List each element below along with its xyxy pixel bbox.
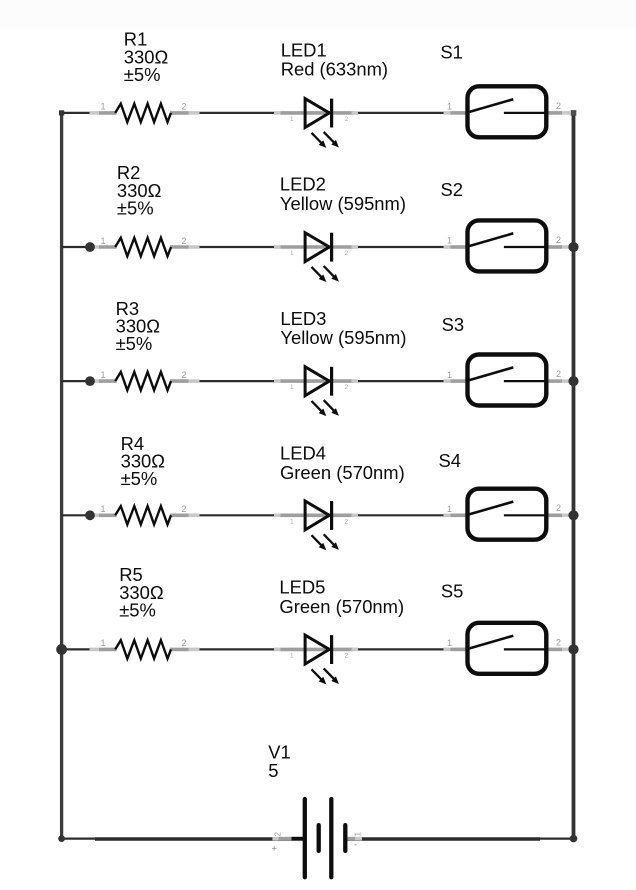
svg-text:LED5: LED5 — [279, 577, 325, 598]
LED3 cathode bar — [330, 367, 333, 396]
S1 pin 2 lead — [549, 111, 563, 115]
wire: bottom left corner stub — [62, 837, 97, 839]
svg-text:Red (633nm): Red (633nm) — [281, 59, 388, 80]
svg-text:1: 1 — [101, 102, 106, 112]
svg-text:Yellow (595nm): Yellow (595nm) — [280, 327, 406, 348]
R4 pin 1 lead — [90, 513, 100, 517]
svg-text:1: 1 — [290, 250, 294, 257]
svg-text:Green (570nm): Green (570nm) — [279, 596, 404, 617]
R3 zigzag body — [115, 372, 171, 390]
junction: bottom left corner — [58, 835, 65, 842]
svg-text:±5%: ±5% — [124, 64, 161, 85]
LED LED2 — [274, 233, 358, 282]
S5 pin 1 lead — [444, 648, 451, 652]
svg-text:1: 1 — [101, 236, 106, 246]
LED3 pin 1 lead — [274, 379, 281, 383]
svg-text:1: 1 — [447, 638, 452, 648]
LED5 pin 2 lead — [306, 648, 354, 652]
S2 lever — [466, 233, 513, 247]
S1 lever — [466, 99, 513, 113]
S2 pin 2 lead — [549, 245, 563, 249]
R5 pin 1 lead — [90, 648, 100, 652]
S5 pin 2 lead — [549, 648, 563, 652]
wire: battery negative lead to right bus — [345, 837, 540, 840]
S5 body outline — [468, 623, 547, 674]
wire: right vertical bus — [572, 113, 576, 839]
LED4 anode triangle — [305, 501, 329, 530]
junction: row 2 right bus dot — [568, 242, 578, 252]
svg-text:S3: S3 — [442, 314, 465, 335]
resistor R4 — [90, 504, 200, 524]
V1 pin 2 lead (positive) — [272, 837, 278, 841]
junction: row 5 left bus dot — [56, 644, 67, 655]
wire: left vertical bus — [60, 113, 63, 839]
LED5 light arrow 2 — [324, 668, 335, 680]
LED4 pin 2 lead — [306, 513, 354, 517]
S1 pin 1 lead — [444, 111, 451, 115]
resistor R5 — [90, 638, 200, 658]
svg-text:1: 1 — [290, 384, 294, 391]
V1 plate tall 2 — [329, 799, 333, 877]
V1 plate positive tall 1 — [303, 799, 307, 877]
S4 pin 2 lead — [549, 513, 563, 517]
label R4 value — [121, 433, 165, 489]
R1 pin 1 lead — [90, 111, 100, 115]
label R1 value — [124, 29, 168, 85]
R3 pin 2 lead — [170, 379, 189, 383]
LED2 cathode bar — [330, 233, 333, 262]
wire: branch 2 bus to resistor — [62, 246, 92, 248]
R2 pin 1 lead — [90, 245, 100, 249]
switch S4 — [444, 489, 571, 540]
svg-text:±5%: ±5% — [121, 468, 158, 489]
svg-text:S5: S5 — [441, 581, 464, 602]
LED3 pin 2 lead — [306, 379, 354, 383]
label LED4 — [280, 443, 405, 483]
label LED5 — [279, 577, 404, 617]
S4 contact — [504, 514, 548, 516]
label R2 value — [117, 162, 161, 218]
LED LED5 — [274, 635, 358, 684]
battery V1 — [272, 799, 363, 877]
label R5 value — [119, 564, 163, 620]
junction: row 1 left corner — [59, 110, 64, 115]
LED4 pin 1 lead — [274, 513, 281, 517]
junction: row 3 right bus dot — [568, 376, 578, 386]
label R3 value — [116, 298, 160, 354]
LED3 light arrow 1 — [312, 401, 323, 412]
svg-text:2: 2 — [345, 250, 349, 257]
S2 pin 1 lead — [444, 245, 451, 249]
wire: branch 5 LED to switch — [357, 648, 446, 650]
svg-text:1: 1 — [101, 370, 106, 380]
wire: branch 5 resistor to LED — [198, 648, 281, 650]
svg-text:LED4: LED4 — [280, 443, 326, 464]
S5 contact — [504, 648, 548, 650]
svg-text:2: 2 — [182, 236, 187, 246]
LED5 light arrow 1 — [312, 669, 323, 680]
V1 plate short 2 (negative) — [343, 825, 347, 851]
LED5 anode triangle — [305, 635, 329, 664]
wire: bottom right corner stub — [538, 837, 574, 839]
wire: branch 1 resistor to LED — [198, 112, 281, 114]
LED1 light arrow 1 — [312, 133, 323, 144]
junction: row 4 right bus dot — [568, 510, 578, 520]
R1 zigzag body — [115, 104, 171, 122]
R3 pin 1 lead — [90, 379, 100, 383]
wire: branch 2 LED to switch — [357, 246, 446, 248]
label LED3 — [280, 308, 406, 348]
svg-text:1: 1 — [447, 102, 452, 112]
LED1 pin 1 lead — [274, 111, 281, 115]
LED1 light arrow 2 — [324, 132, 335, 144]
svg-text:±5%: ±5% — [117, 197, 154, 218]
svg-text:S4: S4 — [439, 450, 462, 471]
switch S1 — [444, 86, 571, 137]
S3 contact — [504, 380, 548, 382]
svg-text:2: 2 — [182, 102, 187, 112]
wire: branch 4 LED to switch — [357, 514, 446, 516]
junction: row 5 right bus dot — [568, 644, 578, 654]
LED4 light arrow 2 — [324, 534, 335, 546]
LED1 anode triangle — [305, 99, 329, 128]
svg-text:2: 2 — [556, 235, 561, 245]
S2 contact — [504, 246, 548, 248]
wire: branch 3 LED to switch — [357, 380, 446, 382]
LED4 light arrow 1 — [312, 535, 323, 546]
svg-text:1: 1 — [447, 370, 452, 380]
svg-text:S1: S1 — [440, 41, 463, 62]
wire: branch 3 resistor to LED — [198, 380, 281, 382]
svg-text:2: 2 — [182, 638, 187, 648]
label V1 value — [268, 742, 291, 782]
wire: branch 3 bus to resistor — [62, 380, 92, 382]
svg-text:±5%: ±5% — [119, 600, 156, 621]
svg-text:LED3: LED3 — [280, 308, 326, 329]
S4 pin 1 lead — [444, 513, 451, 517]
svg-text:+: + — [272, 844, 277, 854]
wire: branch 2 resistor to LED — [198, 246, 281, 248]
S3 body outline — [468, 355, 547, 406]
label LED2 — [280, 174, 406, 214]
R1 pin 2 lead — [170, 111, 189, 115]
svg-text:1: 1 — [290, 652, 294, 659]
svg-text:5: 5 — [268, 760, 278, 781]
switch S5 — [444, 623, 571, 674]
junction: row 3 left dot — [85, 376, 95, 386]
S5 lever — [466, 636, 513, 650]
LED1 pin 2 lead — [306, 111, 354, 115]
LED5 cathode bar — [330, 635, 333, 664]
wire: branch 4 bus to resistor — [62, 514, 92, 516]
R2 zigzag body — [115, 238, 171, 256]
svg-text:2: 2 — [182, 504, 187, 514]
svg-text:2: 2 — [274, 832, 283, 837]
svg-text:2: 2 — [556, 637, 561, 647]
V1 plate short 1 — [317, 825, 321, 851]
svg-text:LED1: LED1 — [281, 39, 327, 60]
svg-text:2: 2 — [556, 503, 561, 513]
svg-text:2: 2 — [182, 370, 187, 380]
resistor R3 — [90, 370, 200, 390]
svg-text:1: 1 — [290, 116, 294, 123]
LED LED1 — [274, 99, 358, 148]
R2 pin 2 lead — [170, 245, 189, 249]
wire: branch 1 LED to switch — [357, 112, 446, 114]
svg-text:2: 2 — [556, 369, 561, 379]
V1 positive stub — [292, 837, 304, 841]
junction: row 2 left dot — [85, 242, 95, 252]
S4 body outline — [468, 489, 547, 540]
svg-text:LED2: LED2 — [280, 174, 326, 195]
LED4 cathode bar — [330, 501, 333, 530]
svg-text:1: 1 — [354, 832, 363, 837]
svg-text:2: 2 — [345, 384, 349, 391]
LED LED4 — [274, 501, 358, 550]
S3 pin 2 lead — [549, 379, 563, 383]
svg-text:1: 1 — [101, 504, 106, 514]
LED2 pin 1 lead — [274, 245, 281, 249]
R4 pin 2 lead — [170, 513, 189, 517]
svg-text:2: 2 — [345, 116, 349, 123]
LED LED3 — [274, 367, 358, 416]
LED3 light arrow 2 — [324, 400, 335, 412]
svg-text:1: 1 — [290, 518, 294, 525]
LED5 pin 1 lead — [274, 648, 281, 652]
S3 lever — [466, 367, 513, 381]
junction: row 4 left dot — [85, 510, 95, 520]
S3 pin 1 lead — [444, 379, 451, 383]
resistor R2 — [90, 236, 200, 256]
resistor R1 — [90, 102, 200, 122]
label LED1 — [281, 39, 388, 79]
V1 pin 1 lead (negative) — [344, 837, 355, 841]
R5 pin 2 lead — [170, 648, 189, 652]
junction: row 1 right corner — [571, 110, 577, 116]
R5 zigzag body — [115, 640, 171, 658]
wire: battery positive lead to left bus — [95, 837, 304, 840]
wire: branch 5 bus to resistor — [62, 648, 92, 650]
svg-text:1: 1 — [447, 236, 452, 246]
wire: branch 4 resistor to LED — [198, 514, 281, 516]
S4 lever — [466, 502, 513, 516]
switch S2 — [444, 220, 571, 271]
R4 zigzag body — [115, 506, 171, 524]
S1 contact — [504, 112, 548, 114]
LED1 cathode bar — [330, 99, 333, 128]
LED3 anode triangle — [305, 367, 329, 396]
svg-text:Yellow (595nm): Yellow (595nm) — [280, 193, 406, 214]
S1 body outline — [468, 86, 547, 137]
svg-text:1: 1 — [447, 504, 452, 514]
svg-text:2: 2 — [556, 101, 561, 111]
svg-text:-: - — [354, 840, 357, 850]
svg-text:2: 2 — [345, 518, 349, 525]
LED2 light arrow 2 — [324, 266, 335, 278]
svg-text:Green (570nm): Green (570nm) — [280, 462, 405, 483]
LED2 anode triangle — [305, 233, 329, 262]
LED2 light arrow 1 — [312, 267, 323, 278]
svg-text:2: 2 — [345, 652, 349, 659]
LED2 pin 2 lead — [306, 245, 354, 249]
junction: bottom right corner — [570, 835, 578, 843]
switch S3 — [444, 355, 571, 406]
svg-text:1: 1 — [101, 638, 106, 648]
svg-text:±5%: ±5% — [116, 333, 153, 354]
wire: branch 1 bus to resistor — [62, 112, 92, 114]
svg-text:S2: S2 — [441, 179, 464, 200]
S2 body outline — [468, 220, 547, 271]
